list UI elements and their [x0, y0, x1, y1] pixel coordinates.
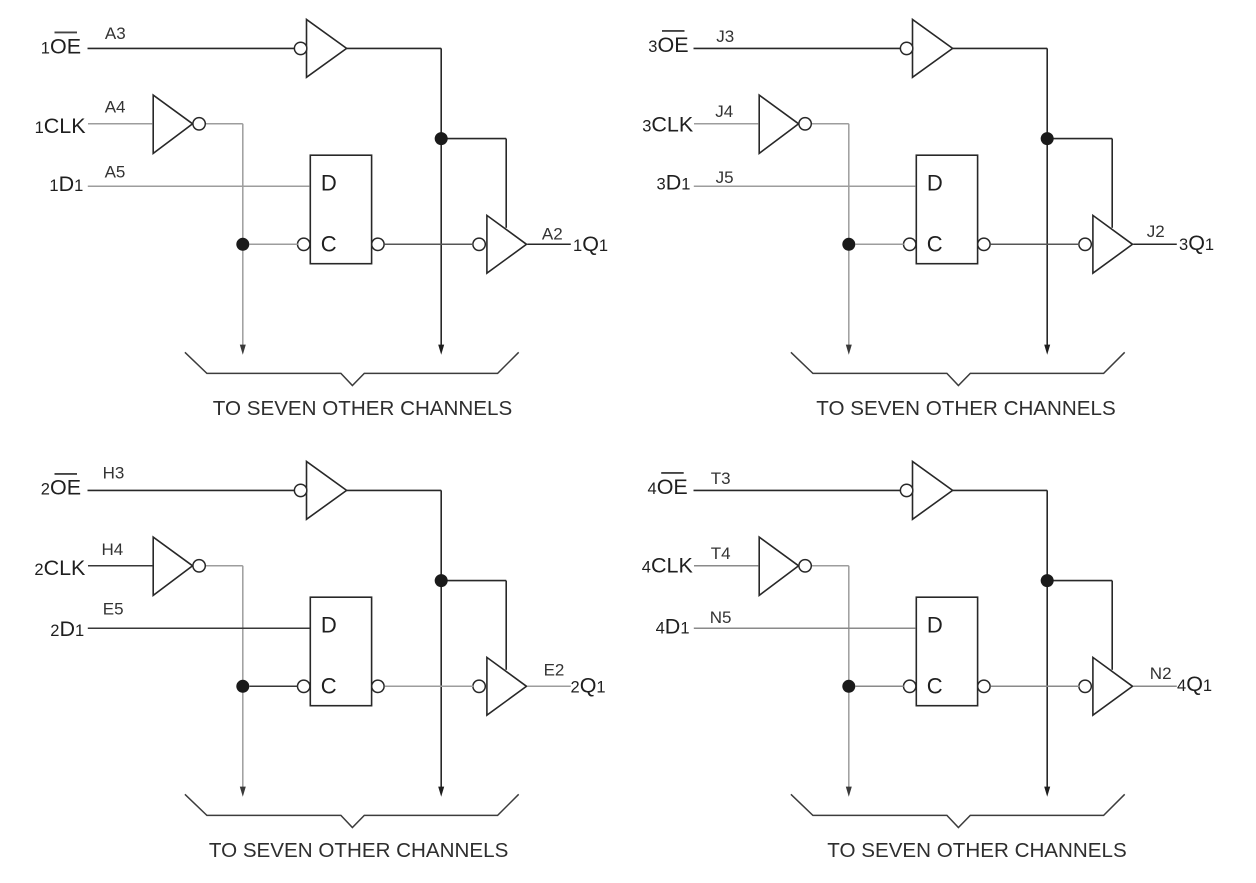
svg-text:J2: J2 — [1147, 222, 1165, 241]
svg-text:3OE: 3OE — [648, 33, 688, 57]
svg-text:3Q1: 3Q1 — [1179, 231, 1214, 255]
svg-text:J5: J5 — [716, 168, 734, 187]
svg-text:4CLK: 4CLK — [642, 554, 694, 578]
svg-text:A4: A4 — [105, 97, 126, 116]
svg-text:1CLK: 1CLK — [35, 114, 87, 138]
svg-text:N5: N5 — [710, 608, 732, 627]
svg-text:TO SEVEN OTHER CHANNELS: TO SEVEN OTHER CHANNELS — [827, 839, 1126, 862]
svg-text:TO SEVEN OTHER CHANNELS: TO SEVEN OTHER CHANNELS — [816, 397, 1115, 420]
svg-text:4OE: 4OE — [648, 475, 688, 499]
svg-text:1OE: 1OE — [41, 34, 81, 58]
svg-text:1D1: 1D1 — [49, 172, 83, 196]
svg-text:TO SEVEN OTHER CHANNELS: TO SEVEN OTHER CHANNELS — [209, 839, 508, 862]
svg-text:2OE: 2OE — [41, 476, 81, 500]
svg-text:4D1: 4D1 — [656, 615, 690, 639]
svg-text:2Q1: 2Q1 — [571, 673, 606, 697]
svg-text:3D1: 3D1 — [657, 170, 691, 194]
svg-text:A5: A5 — [105, 162, 126, 181]
svg-text:A2: A2 — [542, 224, 563, 243]
svg-text:A3: A3 — [105, 24, 126, 43]
svg-text:E5: E5 — [103, 599, 124, 618]
svg-text:H3: H3 — [103, 463, 125, 482]
svg-text:H4: H4 — [102, 540, 124, 559]
svg-text:T3: T3 — [711, 469, 731, 488]
svg-text:T4: T4 — [711, 544, 731, 563]
svg-text:3CLK: 3CLK — [642, 112, 694, 136]
svg-text:N2: N2 — [1150, 664, 1172, 683]
svg-text:1Q1: 1Q1 — [573, 232, 608, 256]
svg-text:2D1: 2D1 — [50, 617, 84, 641]
svg-text:4Q1: 4Q1 — [1177, 672, 1212, 696]
svg-text:J4: J4 — [715, 102, 733, 121]
svg-text:2CLK: 2CLK — [34, 556, 86, 580]
svg-text:TO SEVEN OTHER CHANNELS: TO SEVEN OTHER CHANNELS — [213, 397, 512, 420]
svg-text:E2: E2 — [544, 660, 565, 679]
svg-text:J3: J3 — [716, 27, 734, 46]
